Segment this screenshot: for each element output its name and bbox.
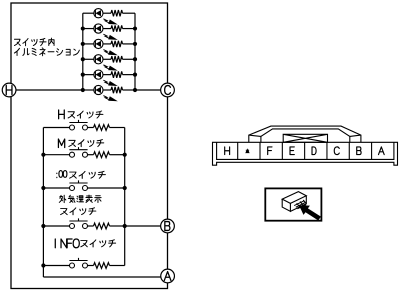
switch assembly outline box: [11, 3, 168, 289]
wire LED6 to R6: [103, 89, 111, 91]
cavity divider: [371, 142, 373, 159]
terminal B letter: [165, 222, 170, 231]
junction left rail: [41, 263, 45, 267]
wire R6 to right rail: [123, 89, 136, 91]
cavity divider: [237, 142, 239, 159]
pin label H: [225, 147, 230, 155]
wire LED2 to R2: [103, 28, 111, 30]
wire switch to right rail (:00 switch row): [88, 187, 125, 189]
label : (:00スイッチ): [56, 173, 58, 177]
wire LED5 to R5: [103, 74, 111, 76]
wire H switch row left: [43, 127, 69, 129]
LED ladder left rail wire: [82, 13, 84, 90]
wire resistor to right rail (outside-temp switch row): [110, 225, 125, 227]
terminal A circle: [161, 269, 175, 283]
label スイッチ (M row): [69, 140, 104, 147]
terminal C letter: [165, 86, 171, 95]
pin label E: [290, 147, 294, 155]
connector latch outer outline: [249, 126, 361, 142]
junction right rail LED row 5: [133, 73, 137, 77]
resistor R5: [111, 71, 123, 77]
junction left rail LED row 5: [81, 73, 85, 77]
resistor R4: [111, 56, 123, 62]
resistor R3: [111, 41, 123, 47]
wire LED ladder to terminal C: [135, 89, 168, 91]
wire outside-temp switch row left: [43, 225, 69, 227]
switch SW3 (:00 switch row): [69, 180, 87, 190]
wire LED row 2: [83, 28, 94, 30]
pin label D: [312, 147, 316, 155]
wire switch to resistor (INFO switch row): [88, 265, 94, 267]
3D connector top face: [282, 192, 306, 204]
resistor R1: [111, 10, 123, 16]
wire switch to resistor (H switch row): [88, 127, 94, 129]
cavity divider: [281, 142, 283, 159]
junction right rail LED row 2: [133, 26, 137, 30]
wire R3 to right rail: [123, 43, 136, 45]
LED6 (illumination LED): [94, 85, 103, 94]
terminal C circle: [161, 83, 175, 97]
LED3 (illumination LED): [94, 39, 103, 48]
junction left rail LED row 3: [81, 42, 85, 46]
wire M switch row left: [43, 154, 69, 156]
latch ledge left: [249, 135, 261, 136]
label H (Hスイッチ): [59, 110, 65, 119]
wire switch to resistor (M switch row): [88, 154, 94, 156]
LED2 (illumination LED): [94, 24, 103, 33]
resistor R10 (outside-temp switch row): [94, 223, 110, 229]
label スイッチ (:00 row): [70, 171, 106, 178]
wire R2 to right rail: [123, 28, 136, 30]
wire terminal H to LED ladder: [11, 89, 83, 91]
wire resistor to right rail (M switch row): [110, 154, 125, 156]
label スイッチ (H row): [68, 111, 103, 118]
resistor R8 (M switch row): [94, 152, 110, 158]
label スイッチ内: [14, 38, 54, 46]
wire R4 to right rail: [123, 58, 136, 60]
label イルミネーション: [14, 48, 79, 56]
LED5 (illumination LED): [94, 70, 103, 79]
junction right rail: [123, 153, 127, 157]
pin label *: [246, 149, 249, 153]
cavity divider: [259, 142, 261, 159]
LED1 (illumination LED): [94, 9, 103, 18]
junction left rail LED row 2: [81, 26, 85, 30]
label 00 (:00スイッチ): [59, 171, 67, 178]
wire outside-temp row to terminal B: [125, 225, 168, 227]
switch SW5 (INFO switch row): [69, 258, 87, 268]
label スイッチ (temp row): [61, 208, 96, 215]
junction left rail: [41, 186, 45, 190]
LED5 emission arrow: [103, 80, 117, 86]
LED3 emission arrow: [103, 50, 117, 56]
wire switch to resistor (outside-temp switch row): [88, 225, 94, 227]
switch SW1 (H switch row): [69, 120, 87, 130]
resistor R7 (H switch row): [94, 125, 110, 131]
junction left rail: [41, 153, 45, 157]
junction right rail LED row 6: [133, 88, 137, 92]
cavity divider: [326, 142, 328, 159]
junction right rail LED row 4: [133, 57, 137, 61]
wire LED3 to R3: [103, 43, 111, 45]
resistor R11 (INFO switch row): [94, 263, 110, 269]
wire resistor to right rail (INFO switch row): [110, 265, 125, 267]
pin label B: [357, 147, 361, 155]
wire LED row 1: [83, 12, 94, 14]
LED2 emission arrow: [103, 34, 117, 40]
resistor R6: [111, 87, 123, 93]
wire LED row 5: [83, 74, 94, 76]
wire INFO switch row left: [43, 265, 69, 267]
cavity divider: [348, 142, 350, 159]
LED1 emission arrow: [103, 19, 117, 25]
connector housing outline: [213, 142, 398, 165]
junction right rail LED row 3: [133, 42, 137, 46]
resistor R2: [111, 25, 123, 31]
junction right rail: [123, 186, 127, 190]
terminal H letter: [6, 86, 12, 95]
junction left rail LED row 4: [81, 57, 85, 61]
pin label C: [334, 147, 339, 155]
wire LED row 6: [83, 89, 94, 91]
label M (Mスイッチ): [58, 139, 64, 148]
switch SW4 (outside-temp switch row): [69, 218, 87, 228]
connector terminal slots: [294, 200, 306, 209]
label スイッチ (INFO row): [81, 240, 116, 247]
junction right rail: [123, 224, 127, 228]
connector latch inner outline: [261, 129, 350, 142]
connector location icon box: [265, 188, 321, 220]
LED4 (illumination LED): [94, 55, 103, 64]
LED4 emission arrow: [103, 65, 117, 71]
latch ledge right: [350, 135, 361, 136]
label 外気温表示: [59, 195, 101, 203]
junction left rail: [41, 224, 45, 228]
wire LED4 to R4: [103, 58, 111, 60]
pin label A: [378, 147, 384, 155]
switch SW2 (M switch row): [69, 147, 87, 157]
pin label F: [268, 147, 272, 155]
3D connector left face: [282, 199, 290, 211]
wire LED1 to R1: [103, 12, 111, 14]
wire LED row 3: [83, 43, 94, 45]
LED6 emission arrow: [103, 96, 117, 102]
terminal A letter: [164, 272, 171, 281]
wire :00 switch row left: [43, 187, 69, 189]
terminal H circle: [2, 83, 16, 97]
cavity divider: [304, 142, 306, 159]
wire R1 to right rail: [123, 12, 136, 14]
wire R5 to right rail: [123, 74, 136, 76]
connector cavity row box: [217, 142, 394, 159]
wire LED row 4: [83, 58, 94, 60]
label INFO: [55, 239, 79, 248]
wire resistor to right rail (H switch row): [110, 127, 125, 129]
switch ladder left rail wire: [42, 128, 44, 278]
LED ladder right rail wire: [134, 13, 136, 90]
wire bottom row to terminal A: [43, 276, 167, 278]
junction left rail LED row 6: [81, 88, 85, 92]
3D connector front face: [290, 196, 306, 212]
latch crossed lock box: [283, 134, 327, 142]
pointer arrow: [299, 205, 321, 220]
switch ladder right rail wire: [124, 128, 126, 266]
terminal B circle: [161, 219, 175, 233]
